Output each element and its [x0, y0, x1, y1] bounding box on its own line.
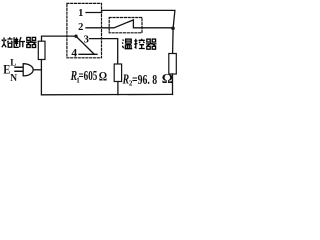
svg-text:3: 3 — [84, 34, 89, 45]
svg-text:=605: =605 — [79, 67, 98, 84]
svg-text:Ω: Ω — [99, 69, 107, 83]
svg-text:Ω: Ω — [162, 72, 173, 87]
svg-text:=96. 8: =96. 8 — [132, 71, 157, 87]
svg-text:L: L — [10, 57, 16, 67]
svg-text:1: 1 — [78, 8, 83, 19]
svg-text:4: 4 — [71, 47, 77, 59]
svg-text:2: 2 — [78, 22, 83, 33]
svg-text:N: N — [10, 72, 18, 84]
